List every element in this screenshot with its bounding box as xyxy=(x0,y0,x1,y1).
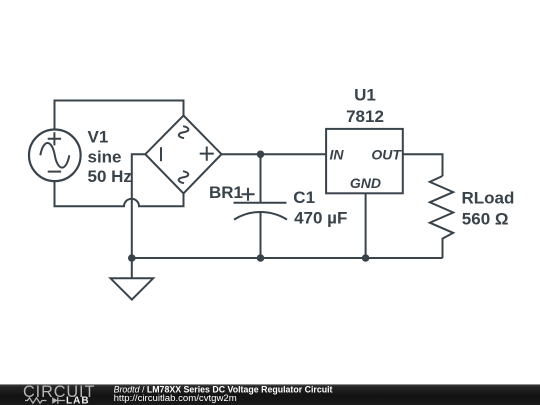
svg-text:U1: U1 xyxy=(354,86,376,105)
svg-text:IN: IN xyxy=(330,147,345,163)
svg-text:sine: sine xyxy=(88,147,122,166)
svg-text:LAB: LAB xyxy=(66,396,90,405)
svg-text:OUT: OUT xyxy=(371,147,402,163)
svg-text:http://circuitlab.com/cvtgw2m: http://circuitlab.com/cvtgw2m xyxy=(114,393,237,404)
svg-text:C1: C1 xyxy=(293,188,315,207)
svg-text:GND: GND xyxy=(350,175,381,191)
svg-text:BR1: BR1 xyxy=(209,183,243,202)
svg-text:RLoad: RLoad xyxy=(462,188,515,207)
svg-text:470 µF: 470 µF xyxy=(294,208,347,227)
svg-text:560 Ω: 560 Ω xyxy=(462,210,509,229)
svg-text:V1: V1 xyxy=(88,128,109,147)
svg-text:7812: 7812 xyxy=(346,107,384,126)
svg-text:50 Hz: 50 Hz xyxy=(88,167,132,186)
